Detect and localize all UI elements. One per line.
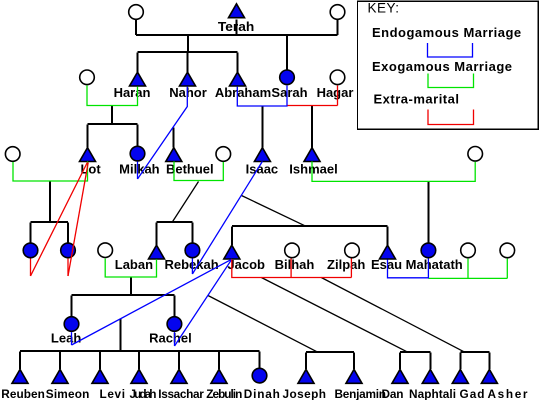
svg-text:Hagar: Hagar (317, 85, 354, 100)
svg-text:Milkah: Milkah (119, 161, 160, 176)
svg-text:Jacob: Jacob (227, 257, 265, 272)
svg-text:Issachar: Issachar (158, 387, 204, 400)
svg-text:Ishmael: Ishmael (289, 161, 337, 176)
svg-text:Gad: Gad (460, 387, 485, 400)
svg-text:Isaac: Isaac (246, 161, 279, 176)
svg-text:Zilpah: Zilpah (327, 257, 365, 272)
svg-text:Leah: Leah (51, 330, 81, 345)
svg-text:Bethuel: Bethuel (166, 161, 214, 176)
svg-text:Simeon: Simeon (46, 387, 90, 400)
svg-text:Esau: Esau (371, 257, 402, 272)
svg-text:Exogamous Marriage: Exogamous Marriage (372, 59, 513, 74)
svg-text:Bilhah: Bilhah (275, 257, 315, 272)
svg-text:Judah: Judah (130, 387, 157, 400)
svg-text:Dinah: Dinah (244, 387, 280, 400)
svg-text:Mahatath: Mahatath (406, 257, 463, 272)
svg-text:Rebekah: Rebekah (164, 257, 218, 272)
svg-text:Rachel: Rachel (149, 330, 192, 345)
svg-text:Abraham: Abraham (215, 85, 271, 100)
svg-text:Extra-marital: Extra-marital (374, 91, 460, 106)
svg-text:Laban: Laban (115, 257, 153, 272)
svg-text:Levi: Levi (100, 387, 126, 400)
svg-text:Naphtali: Naphtali (409, 387, 456, 400)
svg-text:Joseph: Joseph (283, 387, 327, 400)
svg-text:Benjamin: Benjamin (335, 387, 387, 400)
svg-text:Endogamous Marriage: Endogamous Marriage (372, 25, 522, 40)
svg-text:Dan: Dan (382, 387, 404, 400)
svg-text:Haran: Haran (114, 85, 151, 100)
svg-text:Sarah: Sarah (271, 85, 307, 100)
svg-text:Nahor: Nahor (169, 85, 207, 100)
svg-text:Reuben: Reuben (1, 387, 45, 400)
svg-text:KEY:: KEY: (368, 1, 400, 16)
svg-text:Zebulin: Zebulin (206, 387, 242, 400)
